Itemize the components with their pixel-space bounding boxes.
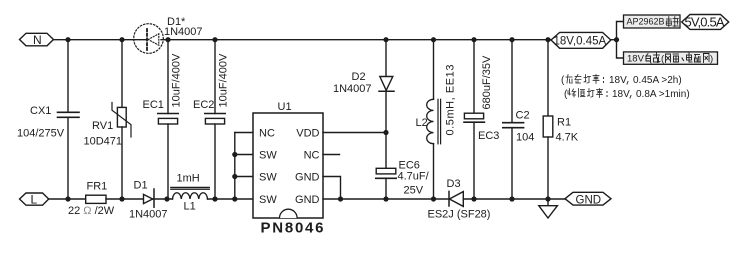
node 5V,0.5A output label <box>682 15 729 30</box>
node junction top C2 <box>509 37 514 42</box>
node GND label <box>565 192 611 206</box>
svg-text:25V: 25V <box>404 185 424 197</box>
wire top rail N to D1* <box>54 39 147 41</box>
capacitor EC1 <box>158 40 178 199</box>
pseudo glyph 阀 <box>704 54 710 63</box>
svg-text:GND: GND <box>576 195 602 207</box>
pseudo glyph 态 <box>575 75 581 84</box>
node junction GND pins <box>338 196 343 201</box>
node junction top EC1 <box>165 37 170 42</box>
pseudo glyph 风 <box>666 54 671 63</box>
diode D1 <box>144 189 173 207</box>
svg-text:1N4007: 1N4007 <box>164 26 203 38</box>
node junction top CX1 <box>65 37 70 42</box>
node junction bottom EC6 <box>383 196 388 201</box>
pseudo glyph 峰 <box>568 89 576 98</box>
wire stub NC right pin <box>323 154 340 156</box>
node junction VDD <box>383 130 388 135</box>
node junction top EC3 <box>471 37 476 42</box>
svg-text:10uF/400V: 10uF/400V <box>171 53 183 107</box>
node junction top D2 <box>383 37 388 42</box>
svg-text:SW: SW <box>259 172 277 184</box>
svg-text:1mH: 1mH <box>177 173 200 185</box>
svg-text:0.8A >1min): 0.8A >1min) <box>636 89 690 100</box>
svg-text:D1: D1 <box>134 180 148 192</box>
svg-text:CX1: CX1 <box>30 105 51 117</box>
svg-text:N: N <box>33 33 42 47</box>
AP2962B module box <box>624 15 681 28</box>
node junction bottom CX1 <box>65 196 70 201</box>
svg-text:10uF/400V: 10uF/400V <box>218 53 230 107</box>
node junction top L2 <box>431 37 436 42</box>
pseudo glyph 载 <box>654 53 661 63</box>
pseudo glyph 模 <box>666 17 671 27</box>
pseudo glyph fullwidth colon <box>603 78 605 83</box>
node junction top RV1 <box>119 37 124 42</box>
svg-text:): ) <box>710 54 713 65</box>
pseudo glyph 率 <box>597 89 603 98</box>
diode D3 <box>449 191 565 206</box>
pseudo glyph 功 <box>588 89 595 98</box>
pseudo glyph 值 <box>579 89 586 98</box>
capacitor EC6 <box>376 168 396 199</box>
pseudo glyph 磁 <box>695 55 701 63</box>
pseudo glyph 扇 <box>673 54 679 62</box>
svg-text:EC3: EC3 <box>478 130 499 142</box>
svg-text:18V: 18V <box>627 54 645 65</box>
svg-text:L2: L2 <box>416 117 428 129</box>
diode D2 <box>379 40 394 169</box>
pseudo glyph fullwidth comma <box>630 96 631 99</box>
wire GND pin4 to rail <box>323 198 449 200</box>
node junction branch <box>614 37 619 42</box>
varistor RV1 <box>112 40 131 199</box>
pseudo glyph fullwidth comma <box>627 82 628 85</box>
svg-text:10D471: 10D471 <box>84 136 123 148</box>
diode D1* optional (dashed circle) <box>134 24 164 54</box>
annotation line 2: peak power <box>564 89 690 101</box>
svg-text:NC: NC <box>259 128 275 140</box>
wire branch up to AP2962B box <box>617 22 624 40</box>
pseudo glyph fullwidth colon <box>606 92 608 97</box>
ground symbol <box>539 199 558 218</box>
svg-text:1N4007: 1N4007 <box>333 83 372 95</box>
svg-text:VDD: VDD <box>296 128 319 140</box>
svg-text:EC2: EC2 <box>193 99 214 111</box>
pseudo glyph 、 <box>682 58 684 61</box>
svg-text:AP2962B: AP2962B <box>627 17 665 27</box>
svg-text:D2: D2 <box>352 71 366 83</box>
svg-text:104/275V: 104/275V <box>17 128 65 140</box>
pseudo glyph 稳 <box>566 75 573 84</box>
node junction bottom L2 <box>431 196 436 201</box>
wire L1 to U1 SW <box>208 198 254 200</box>
wire L to FR1 <box>49 198 86 200</box>
node junction bottom EC3 <box>471 196 476 201</box>
svg-text:4.7uF/: 4.7uF/ <box>398 171 430 183</box>
svg-text:18V: 18V <box>609 75 627 86</box>
svg-text:L1: L1 <box>184 201 196 213</box>
node junction bottom EC1/D1 <box>164 196 169 201</box>
node junction SW pin3 <box>232 174 237 179</box>
pseudo glyph 率 <box>593 75 599 84</box>
node junction bottom EC2 <box>212 196 217 201</box>
svg-text:EC1: EC1 <box>143 99 164 111</box>
18V load box <box>624 52 718 65</box>
resistor R1 <box>543 40 553 199</box>
op-amp U1 PN8046 body <box>253 113 323 218</box>
svg-text:NC: NC <box>304 150 320 162</box>
svg-text:ES2J (SF28): ES2J (SF28) <box>428 209 491 221</box>
node junction SW pin2 <box>232 152 237 157</box>
pseudo glyph 块 <box>673 17 678 27</box>
pseudo glyph 负 <box>646 54 651 64</box>
svg-text:1N4007: 1N4007 <box>129 209 168 221</box>
svg-text:SW: SW <box>259 150 277 162</box>
wire stub NC pin1 <box>235 132 253 134</box>
node junction bottom RV1 <box>119 196 124 201</box>
wire stub SW pin2 <box>235 154 253 156</box>
wire GND pin3 L-shape <box>323 177 341 200</box>
resistor FR1 <box>86 195 106 203</box>
svg-text:0.5mH, EE13: 0.5mH, EE13 <box>445 65 457 136</box>
node 18V,0.45A output label <box>551 32 611 48</box>
svg-text:SW: SW <box>259 194 277 206</box>
node junction top EC2 <box>212 37 217 42</box>
svg-text:680uF/35V: 680uF/35V <box>481 55 493 109</box>
svg-text:0.45A >2h): 0.45A >2h) <box>633 75 682 86</box>
wire stub SW pin3 <box>235 176 253 178</box>
svg-text:GND: GND <box>295 172 320 184</box>
node junction bottom R1/GND <box>545 196 550 201</box>
svg-text:U1: U1 <box>278 101 292 113</box>
svg-text:4.7K: 4.7K <box>556 132 579 144</box>
svg-text:18V: 18V <box>612 89 630 100</box>
wire FR1 to D1 <box>106 198 144 200</box>
inductor L1 <box>171 187 210 199</box>
svg-text:18V,0.45A: 18V,0.45A <box>554 36 607 48</box>
pseudo glyph 电 <box>687 53 693 62</box>
svg-text:L: L <box>31 193 38 207</box>
capacitor EC2 <box>205 40 225 199</box>
wire branch down to 18V load box <box>617 40 624 58</box>
node L input label <box>20 193 49 207</box>
node junction top R1 <box>545 37 550 42</box>
wire VDD to D2/EC6 node <box>323 132 386 134</box>
svg-text:RV1: RV1 <box>92 120 113 132</box>
node junction bottom C2 <box>509 196 514 201</box>
wire top rail D1* to 18V hexagon <box>161 39 551 41</box>
svg-text:C2: C2 <box>516 110 530 122</box>
svg-text:5V,0.5A: 5V,0.5A <box>685 15 725 30</box>
capacitor EC3 <box>464 40 484 199</box>
inductor L2 <box>427 40 441 199</box>
node junction SW bus bottom <box>232 196 237 201</box>
annotation line 1: steady power <box>561 75 682 87</box>
wire SW bus vertical <box>234 133 236 200</box>
node N input label <box>20 33 54 47</box>
wire 18V hexagon to branch <box>611 39 617 41</box>
capacitor CX1 <box>58 40 80 199</box>
pseudo glyph 功 <box>584 75 591 84</box>
capacitor C2 <box>503 40 524 199</box>
svg-text:R1: R1 <box>557 117 571 129</box>
svg-text:22 Ω /2W: 22 Ω /2W <box>68 205 115 217</box>
svg-text:FR1: FR1 <box>87 181 108 193</box>
svg-text:GND: GND <box>295 194 320 206</box>
svg-text:104: 104 <box>516 132 534 144</box>
svg-text:D3: D3 <box>447 178 461 190</box>
